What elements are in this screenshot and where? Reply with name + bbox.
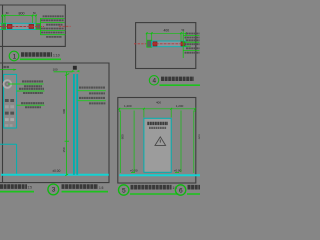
leader arrow to board top (0, 69, 16, 71)
title 6 underline (187, 193, 200, 195)
svg-text:1: 1 (13, 53, 17, 60)
svg-text:1:5: 1:5 (99, 186, 104, 190)
red block left (7, 24, 12, 28)
svg-text:600: 600 (120, 134, 124, 139)
small green level ticks (131, 172, 135, 174)
svg-text:+0.00: +0.00 (130, 168, 138, 172)
title 3 left underline (0, 191, 34, 193)
svg-text:400: 400 (164, 28, 170, 32)
title 4 greeked text (161, 77, 194, 81)
board leader label group 1 (22, 80, 43, 82)
red dashed centerline (0, 26, 44, 28)
red block right (29, 24, 34, 28)
top dimension line (view 5) (118, 108, 196, 118)
title 3 right greeked (62, 184, 99, 189)
title 5 greeked text (131, 185, 172, 190)
board leader label group 2 (19, 88, 44, 90)
svg-text:600: 600 (62, 108, 66, 113)
svg-text:400: 400 (156, 101, 161, 105)
dimension 400 (box 4) (146, 32, 187, 41)
title 5 underline (130, 193, 179, 195)
title 6 greeked text (188, 185, 201, 190)
right end cap (36, 24, 41, 30)
svg-text:4: 4 (153, 78, 157, 85)
svg-text:3: 3 (52, 187, 56, 194)
leader underlines (box 1) (40, 18, 65, 35)
door text block greeked (147, 122, 168, 125)
red dashed centerline tail (box 4) (134, 43, 146, 45)
title 1 circle (9, 51, 19, 61)
svg-text:+0.00: +0.00 (174, 168, 182, 172)
side extension lines (view 5) (133, 111, 135, 173)
red block left (box 4) (153, 42, 157, 46)
HD level mark text (4, 66, 10, 68)
board text rows greeked (5, 101, 15, 126)
svg-text:6: 6 (179, 187, 183, 194)
bottom-left detail box border (0, 63, 109, 183)
svg-text:±0.00: ±0.00 (52, 169, 60, 173)
emblem circle (4, 80, 12, 88)
title 4 circle (149, 76, 158, 85)
svg-text:100: 100 (53, 67, 58, 71)
svg-text:5: 5 (122, 187, 126, 194)
title 3 left (cut) greeked (0, 184, 27, 189)
ground line right box (119, 174, 200, 176)
end cap (box 4) (147, 40, 152, 47)
pole leader label 2 (79, 97, 105, 99)
red dashed centerline tail crossing box edge (59, 25, 71, 27)
title 1 green underline bar (20, 58, 61, 60)
svg-text:1,200: 1,200 (124, 104, 132, 108)
pole elevation (view 3) (73, 74, 75, 175)
dimension 800 (box 1) (1, 15, 37, 24)
wall profile lines (0, 143, 17, 145)
title 6 circle (175, 185, 185, 195)
title 3 right underline (62, 191, 109, 193)
svg-text:150: 150 (62, 147, 66, 152)
door / sign panel (view 5) (144, 118, 171, 172)
svg-text:1,200: 1,200 (176, 104, 184, 108)
board leader label group 3 (21, 102, 44, 104)
vertical dimension 600 (pole height) (66, 72, 68, 175)
title 1 greeked text (21, 52, 52, 56)
leader annotations right (box 4) (182, 31, 184, 58)
right vertical dim (193, 111, 195, 174)
red dashes inside bar (box 4) (152, 43, 186, 45)
left end cap (2, 24, 6, 30)
svg-text:600: 600 (198, 134, 200, 139)
title 3 circle (48, 184, 59, 195)
detail box 4 border (top-right plan view) (136, 23, 196, 69)
ground line left box (1, 174, 109, 176)
leader labels right of bar (box 1) greeked text (41, 16, 64, 37)
board cross-section dark square above pole (73, 66, 77, 70)
svg-text:1:10: 1:10 (53, 54, 60, 58)
red block right (box 4) (181, 42, 185, 46)
svg-text:1:5: 1:5 (28, 186, 33, 190)
bottom-right detail box border (118, 98, 196, 184)
sign bar plan view (box 4) (152, 41, 186, 47)
warning triangle (155, 137, 166, 146)
title 5 circle (119, 185, 129, 195)
left vertical dim (119, 111, 121, 174)
svg-text:800: 800 (19, 12, 25, 16)
detail box 1 border (top-left plan view) (0, 5, 65, 183)
sign bar plan view (box 1) : cyan body (0, 23, 36, 29)
title 4 underline (160, 84, 201, 86)
sign board elevation (wall view) (4, 74, 17, 128)
pole leader label 1 (79, 87, 105, 89)
